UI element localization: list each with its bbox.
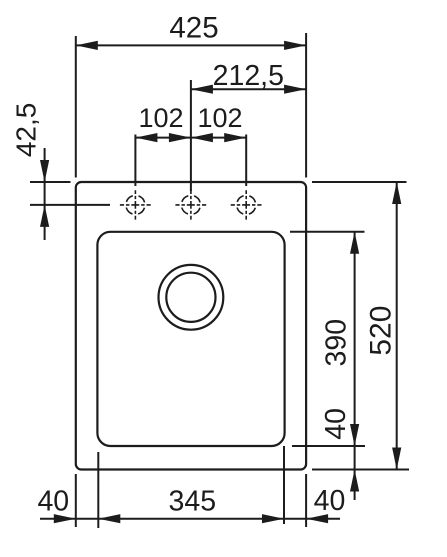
svg-text:390: 390 — [321, 319, 353, 367]
svg-text:425: 425 — [169, 11, 218, 44]
svg-text:40: 40 — [314, 485, 346, 517]
svg-text:40: 40 — [37, 485, 69, 517]
svg-text:40: 40 — [320, 408, 352, 440]
svg-text:212,5: 212,5 — [213, 60, 284, 92]
svg-text:345: 345 — [169, 485, 217, 517]
svg-text:102: 102 — [197, 103, 242, 133]
svg-text:42,5: 42,5 — [11, 103, 42, 158]
svg-text:520: 520 — [365, 306, 398, 356]
svg-text:102: 102 — [138, 103, 183, 133]
